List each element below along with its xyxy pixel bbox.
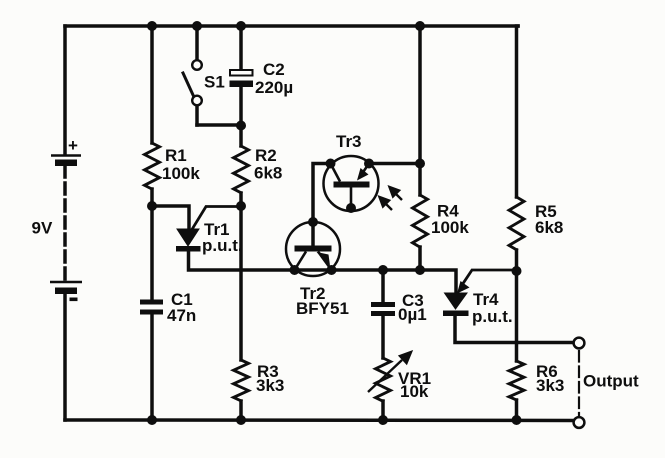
junction node Tr2 base top [308,217,318,227]
svg-text:C2: C2 [263,60,285,79]
wire C3 to VR1 [381,316,385,358]
wire S1 to C2 junction [197,123,241,127]
wire C3 top lead [381,270,385,302]
junction node S1/C2 [236,121,246,131]
resistor VR1 [376,358,391,401]
svg-text:3k3: 3k3 [256,376,284,395]
transistor Tr3 emitter arrowhead [357,168,369,181]
svg-text:S1: S1 [204,73,225,92]
svg-text:3k3: 3k3 [536,376,564,395]
resistor R3 [234,360,249,401]
light arrow lower into Tr3 [380,197,393,210]
output terminal upper [574,338,585,349]
wire R3 to bottom rail [239,401,243,420]
capacitor C3 top plate [371,302,395,307]
junction node C3 top [378,265,388,275]
wire Tr1 gate to R2 junction [191,207,241,232]
junction node Tr3 collector [326,159,336,169]
battery B1 negative plate (thick) [55,160,77,167]
switch S1 lower contact [192,96,202,106]
svg-text:100k: 100k [431,218,469,237]
wire Tr4 gate to R5 junction [462,270,517,285]
svg-text:220µ: 220µ [255,78,293,97]
wire top rail [65,24,518,28]
transistor Tr2 body circle [286,222,340,276]
wire C1 to bottom rail [150,316,154,420]
switch S1 lever [183,73,194,96]
battery B1 positive plate (thin) [51,154,81,157]
transistor Tr2 collector lead [295,252,307,271]
wire VR1 to bottom rail [381,401,385,420]
svg-text:p.u.t.: p.u.t. [202,236,243,255]
capacitor C1 bottom plate [140,310,163,315]
junction node top rail R1 [147,21,157,31]
transistor Tr2 base bar [295,246,332,252]
wire Tr1 anode horizontal [152,206,189,229]
battery minus sign [70,298,78,302]
wire S1 branch from top rail [195,26,199,60]
wire R1 branch vertical [150,26,154,143]
transistor Tr1 cathode bar [176,246,201,252]
wire battery dashed cell link [63,166,67,280]
wire R1 bottom [150,189,154,206]
wire R5 junction down to R6 [515,271,519,361]
wire C2 branch from top rail [239,26,243,70]
junction node R2/Tr1 gate [236,201,246,211]
wire R6 to bottom rail [515,400,519,420]
resistor R4 [413,195,428,247]
svg-text:47n: 47n [167,306,196,325]
transistor Tr3 collector lead [331,164,341,182]
transistor Tr2 emitter lead with arrow [318,252,332,271]
svg-text:R2: R2 [255,146,277,165]
svg-text:100k: 100k [162,164,200,183]
battery B1 lower negative plate (thick) [55,288,77,295]
resistor R2 [234,146,249,193]
junction node R4 bottom [415,265,425,275]
wire battery negative to bottom rail [63,294,67,420]
capacitor C3 bottom plate [371,311,395,316]
svg-text:6k8: 6k8 [535,218,563,237]
wire Tr3 emitter segment to R4 branch [369,162,420,166]
junction node bottom rail R6 [512,415,522,425]
wire R2 top lead [239,125,243,146]
transistor Tr3 body circle [324,156,379,211]
wire Tr2 base vertical up to Tr3 collector [313,164,332,247]
junction node bottom rail C1 [147,415,157,425]
wire R2 junction to R3 vertical [239,206,243,360]
wire Tr4 cathode to output terminal [455,316,572,343]
junction node R4 top [415,159,425,169]
light arrow upper into Tr3 [390,187,403,200]
wire R5 bottom lead [515,250,519,271]
junction node R5 bottom [512,266,522,276]
svg-text:6k8: 6k8 [254,164,282,183]
wire C2 bottom lead [239,87,243,125]
transistor Tr4 gate arrowhead [457,281,470,294]
capacitor C2 bottom plate (solid) [230,81,254,88]
transistor Tr1 anode triangle [177,229,199,246]
wire R2 bottom lead [239,193,243,206]
wire Tr1 cathode down and across to Tr2/Tr4 [189,251,457,293]
variable resistor VR1 arrow [368,352,411,392]
junction node Tr2 collector [290,265,300,275]
junction node top rail S1 [192,21,202,31]
svg-text:Tr3: Tr3 [336,132,362,151]
junction node bottom rail R3 [236,415,246,425]
junction node Tr3 base bottom [346,203,356,213]
switch S1 upper contact [192,60,202,70]
wire bottom rail [65,418,574,422]
resistor R6 [509,361,524,400]
junction node R1/Tr1 anode [147,201,157,211]
svg-text:+: + [68,136,78,155]
transistor Tr4 cathode bar [443,311,469,317]
wire R4 bottom lead [418,247,422,270]
capacitor C2 top plate (hollow) [230,70,253,76]
junction node top rail R4 [415,21,425,31]
wire left drop from top rail to battery [63,26,67,154]
resistor R1 [145,143,160,189]
output terminal lower [574,417,585,428]
svg-text:9V: 9V [32,219,53,238]
junction node Tr3 emitter [364,159,374,169]
svg-text:Output: Output [583,372,639,391]
wire R4 branch from top rail [418,26,422,195]
wire C1 branch vertical top [150,206,154,300]
wire R5 branch from top rail right corner [517,26,519,197]
wire S1 lower contact down [195,106,199,126]
transistor Tr3 emitter lead with arrow [359,164,369,179]
svg-text:p.u.t.: p.u.t. [472,307,513,326]
capacitor C1 top plate [140,300,163,305]
junction node Tr2 emitter [327,265,337,275]
svg-text:BFY51: BFY51 [296,299,349,318]
junction node top rail C2 [236,21,246,31]
transistor Tr4 anode triangle [445,293,468,309]
svg-text:10k: 10k [400,382,429,401]
transistor Tr3 base bar [334,182,370,188]
wire output dashed link [578,351,580,417]
transistor Tr3 base lead down [350,188,353,209]
svg-text:0µ1: 0µ1 [398,305,427,324]
battery B1 lower positive plate (thin) [50,281,82,284]
junction node bottom rail VR1 [378,415,388,425]
svg-text:R1: R1 [165,146,187,165]
transistor Tr2 emitter arrowhead [317,252,331,266]
resistor R5 [509,197,524,250]
